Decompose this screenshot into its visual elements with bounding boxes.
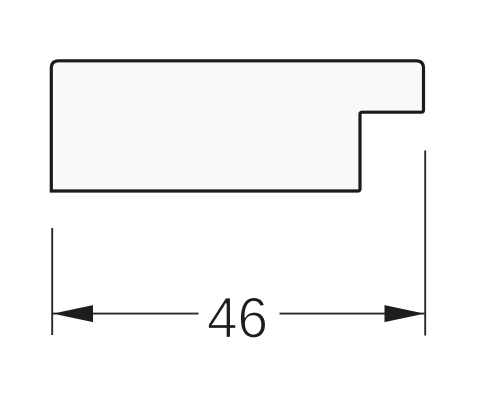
dimension line right segment [280,313,425,315]
left extension line [51,228,53,335]
right arrowhead [385,305,425,322]
right extension line [424,151,426,336]
profile outline (stepped moulding section) [51,61,423,191]
left arrowhead [53,305,93,322]
dimension line left segment [53,313,199,315]
svg-text:46: 46 [207,287,268,351]
